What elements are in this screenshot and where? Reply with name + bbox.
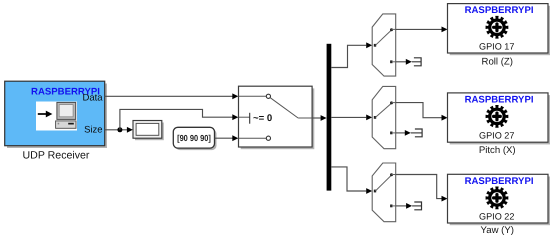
svg-text:GPIO 17: GPIO 17: [479, 42, 514, 52]
svg-text:GPIO 27: GPIO 27: [479, 130, 514, 140]
selector block 2: [372, 86, 396, 148]
wire Selector1 to GPIO 17: [396, 27, 448, 33]
wire Selector2 to Terminator 2: [396, 130, 422, 136]
wire bar to Selector 3: [331, 167, 372, 194]
svg-text:RASPBERRYPI: RASPBERRYPI: [465, 5, 534, 16]
wire Size from UDP Receiver: [105, 127, 133, 133]
svg-text:[90 90 90]: [90 90 90]: [177, 133, 211, 143]
wire Selector2 to GPIO 27: [396, 103, 448, 121]
svg-text:Roll (Z): Roll (Z): [482, 57, 513, 68]
selector block 1: [372, 14, 396, 76]
selector block 3: [372, 163, 396, 222]
constant [90 90 90]: [173, 127, 216, 150]
svg-text:Size: Size: [84, 124, 102, 135]
svg-text:Data: Data: [83, 93, 104, 104]
svg-text:GPIO 22: GPIO 22: [479, 211, 514, 221]
wire bar to Selector 1: [331, 42, 372, 67]
svg-text:~= 0: ~= 0: [253, 113, 272, 124]
wire Switch output to Mux bar: [312, 115, 327, 121]
svg-text:Yaw (Y): Yaw (Y): [481, 225, 514, 236]
wire Size branch to Switch control input: [120, 109, 238, 129]
svg-text:UDP Receiver: UDP Receiver: [23, 150, 90, 162]
wire Selector1 to Terminator 1: [396, 59, 421, 65]
svg-text:Pitch (X): Pitch (X): [479, 145, 516, 156]
op Switch block: [239, 86, 315, 149]
wire Selector3 to Terminator 3: [396, 203, 422, 209]
wire bar to Selector 2: [331, 115, 372, 121]
terminator 2: [415, 129, 422, 137]
terminator 3: [414, 202, 421, 210]
node junction on Size wire: [117, 127, 122, 132]
block GPIO 17 (Roll): [448, 4, 550, 68]
block GPIO 22 (Yaw): [448, 174, 550, 236]
mux/demux bar: [327, 44, 332, 191]
wire constant to Switch input 3: [215, 135, 239, 141]
block UDP Receiver: [5, 81, 107, 161]
block GPIO 27 (Pitch): [448, 93, 550, 156]
wire Selector3 to GPIO 22: [396, 175, 448, 202]
terminator 1: [414, 58, 421, 66]
wire Data to Switch input 1: [105, 93, 239, 99]
svg-text:RASPBERRYPI: RASPBERRYPI: [465, 176, 534, 187]
svg-text:RASPBERRYPI: RASPBERRYPI: [465, 94, 534, 105]
block Display: [133, 121, 164, 141]
